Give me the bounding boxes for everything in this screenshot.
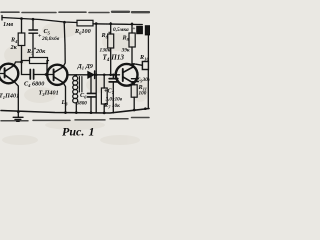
svg-text:6800: 6800 [77, 100, 88, 106]
svg-text:C4 6800: C4 6800 [24, 81, 44, 89]
svg-text:Т3П401: Т3П401 [39, 90, 59, 98]
svg-text:R7 10к: R7 10к [103, 102, 120, 110]
svg-text:R5*20к: R5*20к [26, 48, 46, 56]
svg-text:0,5мка: 0,5мка [113, 27, 129, 33]
svg-text:1мв: 1мв [3, 21, 13, 28]
svg-text:R6100: R6100 [74, 28, 91, 36]
svg-text:20,0x6в: 20,0x6в [41, 36, 60, 42]
svg-text:+: + [133, 27, 136, 32]
svg-text:100: 100 [139, 91, 147, 97]
svg-text:Рис.: Рис. [62, 125, 84, 139]
svg-text:+: + [38, 34, 42, 40]
svg-text:1: 1 [89, 125, 95, 139]
svg-text:C930,0: C930,0 [137, 77, 151, 83]
svg-text:2к: 2к [10, 44, 18, 51]
svg-text:Д1 Д9: Д1 Д9 [77, 63, 93, 71]
